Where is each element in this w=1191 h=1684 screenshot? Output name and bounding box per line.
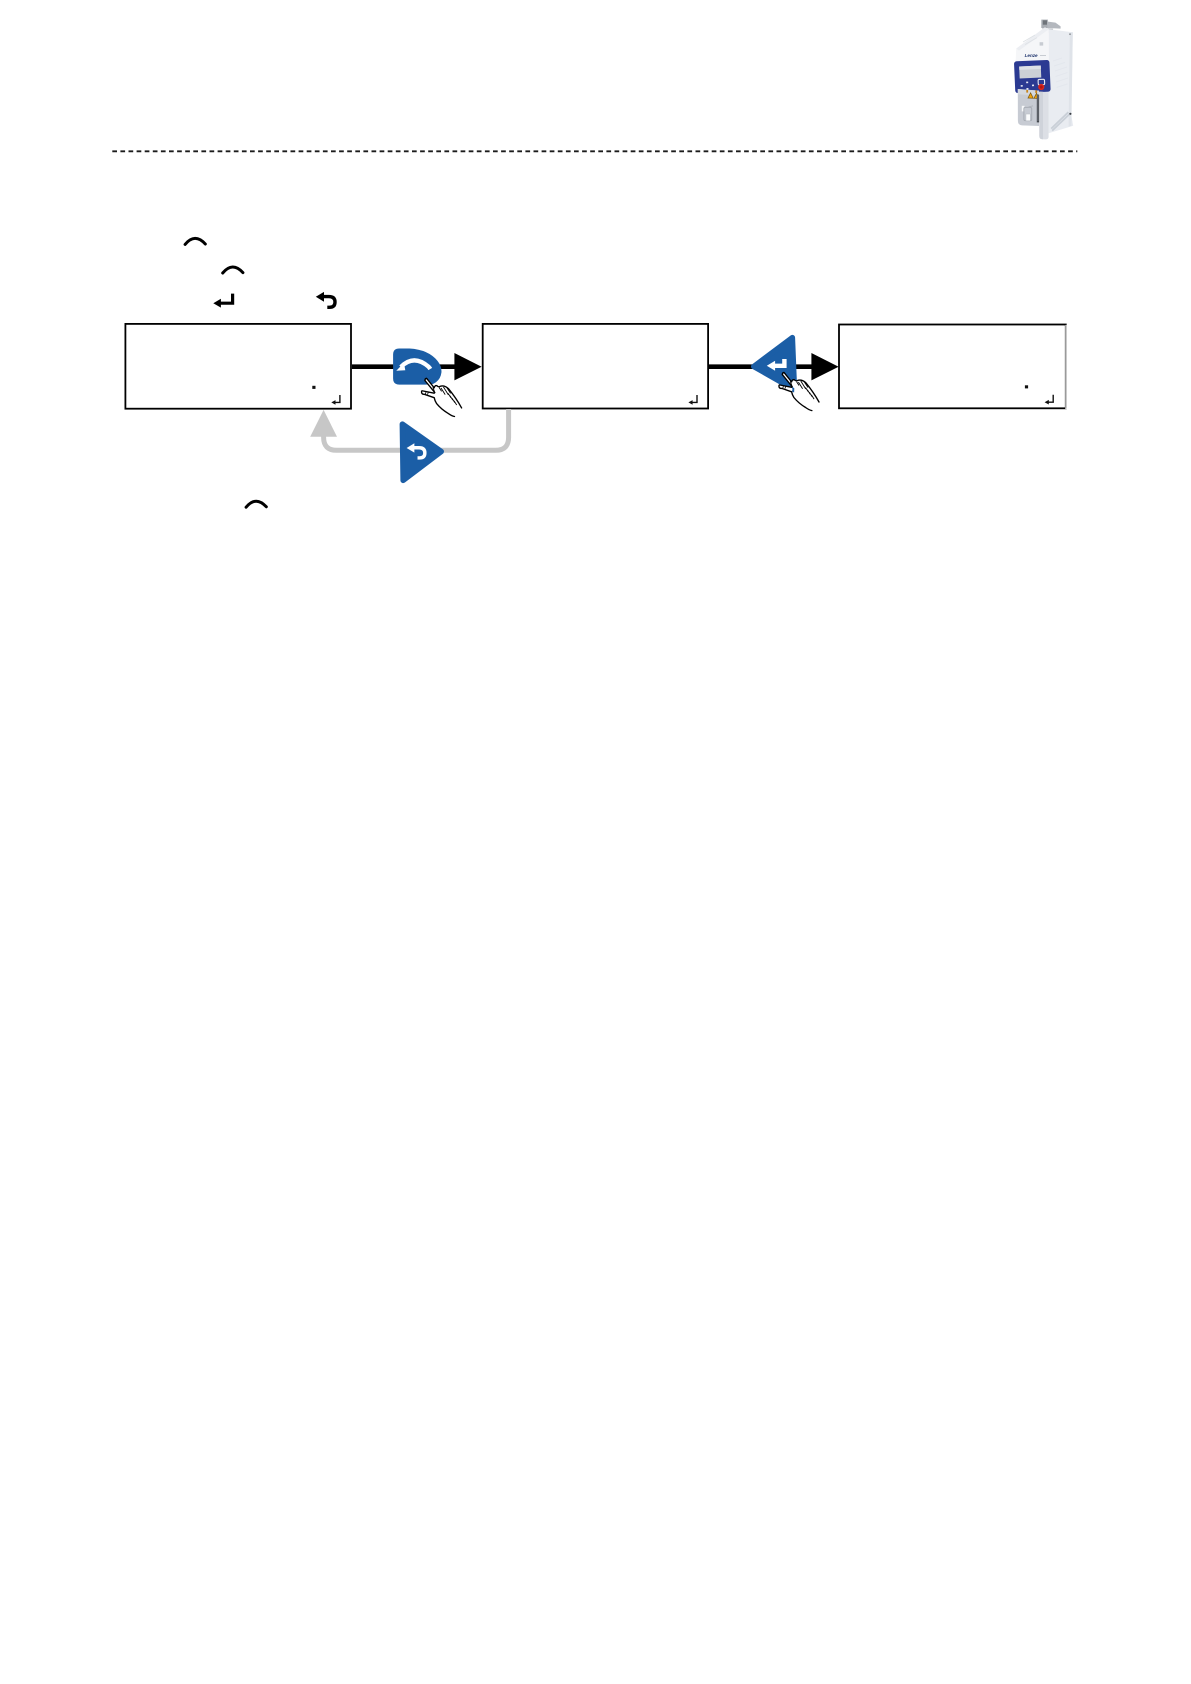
keypad: [1014, 60, 1051, 93]
front face upper: [1016, 27, 1049, 62]
grey return path: [310, 409, 508, 450]
DIN clip: [1041, 20, 1048, 28]
warning triangles: [1028, 93, 1033, 98]
side face: [1049, 29, 1074, 133]
enter glyph box 1: [331, 395, 340, 405]
display box 1: [125, 324, 351, 409]
dot in box 1: [312, 386, 315, 389]
arrow box2 to box3: [709, 353, 839, 380]
pointing hand 1: [422, 378, 462, 416]
wheel arc icon 3: [246, 501, 266, 507]
dot in box 3: [1025, 385, 1028, 388]
dashed separator rule: [112, 150, 1077, 152]
bold enter icon: [213, 294, 232, 308]
enter glyph box 2: [688, 395, 697, 405]
product photo: Lenze inverter top right: [1014, 20, 1073, 140]
bold back icon: [316, 292, 335, 307]
blue wheel button: [393, 349, 441, 385]
display box 2: [483, 324, 708, 409]
enter glyph box 3: [1045, 395, 1054, 405]
centre column: [1039, 92, 1048, 140]
blue enter button (triangle left): [754, 338, 795, 390]
pointing hand 2: [779, 372, 819, 410]
switch detail: [1022, 106, 1025, 112]
zipper strip: [1037, 95, 1040, 123]
wheel arc icon 2: [223, 267, 243, 273]
wheel arc icon 1: [185, 238, 205, 244]
blue esc button (triangle right): [402, 424, 441, 480]
svg-text:Lenze: Lenze: [1025, 53, 1038, 58]
vents on side: [1051, 112, 1069, 130]
arrow box1 to box2: [352, 353, 482, 380]
display box 3: [839, 325, 1067, 410]
lower front panel: [1018, 89, 1039, 126]
